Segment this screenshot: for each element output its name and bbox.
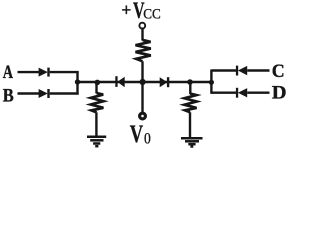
wire B input	[18, 92, 40, 94]
wire left resistor top	[95, 82, 97, 94]
wire left resistor to ground	[95, 112, 97, 136]
svg-text:D: D	[272, 83, 287, 104]
junction left resistor	[95, 80, 101, 86]
diode DD (D input, pointing left)	[236, 88, 247, 98]
junction right bus	[209, 80, 214, 85]
wire B to bus	[50, 92, 79, 94]
ground right	[181, 138, 203, 146]
svg-text:0: 0	[144, 131, 151, 148]
diode D5 (center left, pointing left)	[115, 76, 124, 87]
wire resistor to center node	[141, 61, 143, 82]
wire center node to output	[141, 82, 143, 113]
wire D input	[247, 91, 269, 93]
resistor R2 (pull-up)	[136, 40, 151, 61]
wire A to bus	[50, 71, 79, 73]
wire C input	[247, 69, 269, 71]
terminal Vo	[140, 113, 146, 119]
wire D from bus	[211, 91, 236, 93]
wire Vcc to resistor	[141, 29, 143, 41]
diode DC (C input, pointing left)	[236, 66, 247, 76]
junction right resistor	[187, 79, 193, 85]
junction center node	[140, 79, 146, 85]
ground left	[87, 137, 106, 146]
wire center horizontal	[78, 81, 212, 83]
svg-text:V: V	[130, 119, 144, 148]
svg-text:B: B	[3, 85, 14, 106]
svg-text:+: +	[121, 0, 131, 20]
wire C from bus	[211, 69, 236, 71]
resistor R1 (left pull-down)	[91, 93, 104, 112]
wire left bus bar	[76, 71, 78, 95]
svg-text:CC: CC	[143, 7, 161, 23]
diode DA (A input)	[39, 68, 50, 77]
svg-text:A: A	[3, 62, 13, 83]
diode D6 (center right, pointing right)	[160, 77, 170, 87]
junction left bus	[75, 79, 80, 84]
wire right resistor to ground	[189, 112, 191, 138]
diode DB (B input)	[39, 89, 50, 98]
wire A input	[18, 71, 40, 73]
wire right bus bar	[210, 70, 212, 94]
terminal Vcc	[139, 23, 145, 29]
resistor R3 (right pull-down)	[184, 94, 196, 113]
svg-text:C: C	[272, 61, 285, 82]
wire right resistor top	[189, 82, 191, 94]
